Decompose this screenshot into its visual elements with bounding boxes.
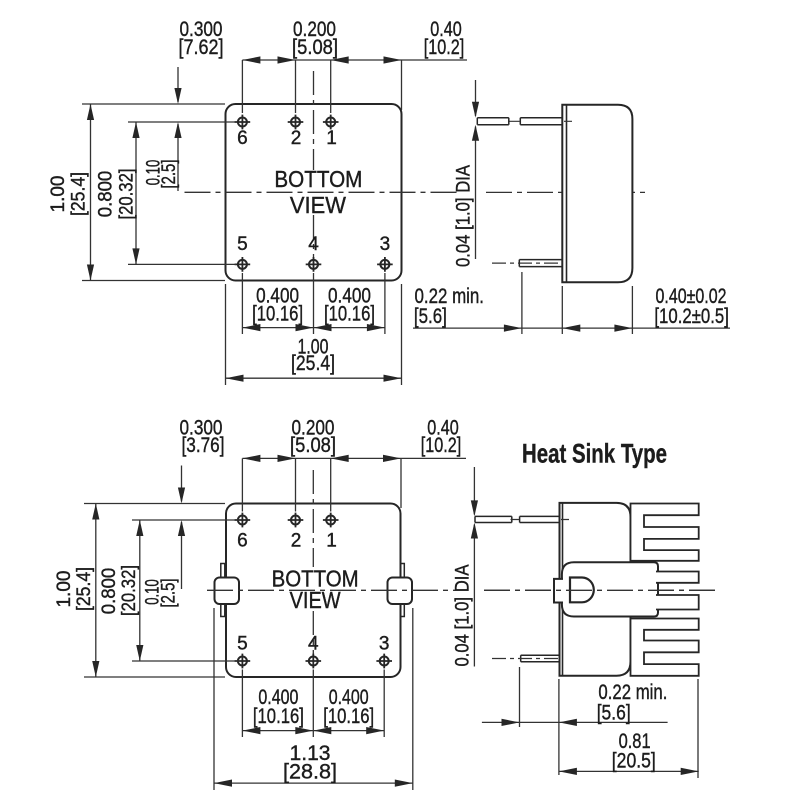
svg-text:[10.16]: [10.16]	[323, 705, 374, 728]
0.81 dim hs side view	[559, 679, 699, 778]
body outline bottom view standard	[226, 104, 402, 281]
top dimension lines 0.300 0.200 0.40	[242, 60, 467, 113]
bottom dims standard side view	[413, 272, 730, 334]
hs top pin break centerline	[511, 519, 570, 521]
pin 6 hs	[235, 513, 251, 528]
svg-text:0.800: 0.800	[95, 171, 116, 218]
body outline bottom view heat sink	[226, 504, 401, 678]
svg-text:[10.16]: [10.16]	[324, 303, 375, 326]
svg-text:[3.76]: [3.76]	[182, 434, 225, 457]
svg-text:[10.16]: [10.16]	[253, 705, 304, 728]
svg-text:[5.6]: [5.6]	[414, 305, 447, 328]
svg-text:5: 5	[237, 633, 248, 654]
svg-text:0.800: 0.800	[99, 568, 120, 615]
svg-text:[25.4]: [25.4]	[291, 352, 335, 375]
svg-text:VIEW: VIEW	[290, 192, 346, 218]
hs bottom pin	[521, 655, 560, 662]
pin 5 hs	[235, 654, 251, 669]
0.400 dims below body top drawing	[242, 273, 385, 334]
pin 4 hs	[306, 654, 322, 669]
0.10 dim top drawing	[177, 67, 179, 191]
svg-text:BOTTOM: BOTTOM	[274, 166, 362, 192]
clamp block	[562, 562, 658, 616]
pin 3 top	[377, 257, 393, 272]
svg-text:3: 3	[379, 633, 390, 654]
heat sink middle stub fin B	[656, 595, 699, 610]
1.00 height dim bottom drawing	[84, 504, 225, 678]
svg-text:[5.6]: [5.6]	[597, 702, 631, 725]
left mounting strip	[221, 564, 225, 617]
top dimension lines bottom drawing	[242, 458, 466, 511]
0.04 DIA dim standard side view	[475, 80, 477, 259]
svg-text:[5.08]: [5.08]	[290, 434, 336, 457]
svg-text:2: 2	[291, 530, 302, 551]
svg-text:[25.4]: [25.4]	[74, 567, 95, 611]
svg-text:[10.2]: [10.2]	[421, 434, 462, 457]
pin 1 top	[323, 115, 339, 130]
svg-text:1: 1	[326, 128, 337, 149]
pin 2 top	[288, 115, 304, 130]
clamp D-hole	[570, 578, 594, 603]
svg-text:1: 1	[326, 530, 337, 551]
svg-text:VIEW: VIEW	[290, 587, 341, 613]
pin 6 top	[235, 115, 251, 130]
pin 2 hs	[288, 513, 304, 528]
svg-text:[10.16]: [10.16]	[252, 303, 303, 326]
horizontal centerline top drawing	[185, 191, 650, 193]
svg-text:[20.32]: [20.32]	[116, 169, 137, 220]
side body inner face line	[566, 105, 568, 282]
heat sink middle stub fin A	[656, 572, 699, 583]
svg-text:[25.4]: [25.4]	[69, 172, 90, 216]
svg-text:4: 4	[308, 234, 319, 255]
heat sink top comb	[631, 504, 699, 561]
svg-text:[7.62]: [7.62]	[179, 36, 224, 59]
svg-text:[5.08]: [5.08]	[292, 36, 338, 59]
svg-text:Heat Sink Type: Heat Sink Type	[522, 439, 667, 469]
right flange tab	[388, 578, 413, 605]
0.10 dim bottom drawing	[181, 466, 183, 590]
svg-text:6: 6	[237, 128, 248, 149]
heat sink bottom comb	[631, 619, 699, 676]
bottom pin standard side view	[519, 260, 562, 267]
svg-text:4: 4	[308, 633, 319, 654]
arrows top dims	[242, 56, 401, 63]
svg-text:6: 6	[237, 530, 248, 551]
0.800 dim bottom drawing	[132, 520, 240, 661]
svg-text:5: 5	[237, 234, 248, 255]
svg-text:0.04 [1.0] DIA: 0.04 [1.0] DIA	[454, 165, 475, 267]
svg-text:[10.2±0.5]: [10.2±0.5]	[654, 305, 729, 328]
svg-text:[2.5]: [2.5]	[159, 579, 180, 608]
side body outline standard	[562, 105, 632, 282]
svg-text:1.00: 1.00	[48, 176, 69, 213]
svg-text:2: 2	[291, 128, 302, 149]
svg-text:3: 3	[380, 234, 391, 255]
bottom pin centerline std	[492, 262, 560, 264]
pin 1 hs	[323, 513, 339, 528]
top pin break centerline std	[510, 120, 573, 122]
hs top pin	[475, 516, 560, 522]
hs bottom pin centerline	[492, 658, 559, 660]
vertical centerline bottom bottom-view	[312, 470, 314, 666]
right mounting strip	[400, 564, 404, 617]
hs body inner face line	[562, 503, 564, 676]
1.00 width dim top drawing	[226, 284, 402, 385]
svg-text:[20.5]: [20.5]	[612, 750, 656, 773]
1.00 height dim top drawing	[82, 104, 225, 281]
svg-text:[28.8]: [28.8]	[283, 761, 337, 784]
clamp left nub	[554, 579, 563, 603]
horizontal centerline bottom drawing	[207, 589, 716, 591]
pin 4 top	[306, 257, 322, 272]
0.800 dim top drawing	[128, 122, 236, 264]
pin 3 hs	[376, 654, 392, 669]
pin 5 top	[235, 257, 251, 272]
left flange tab	[215, 578, 240, 605]
svg-text:[2.5]: [2.5]	[159, 160, 180, 189]
hs centerline over clamp	[484, 589, 716, 591]
hs body block	[560, 503, 631, 676]
1.13 width dim bottom drawing	[214, 608, 413, 790]
top pin standard side view	[477, 118, 562, 125]
svg-text:0.04 [1.0] DIA: 0.04 [1.0] DIA	[453, 564, 474, 666]
0.22 min dim hs side view	[482, 667, 668, 775]
svg-text:[20.32]: [20.32]	[119, 565, 140, 616]
vertical centerline top bottom-view	[313, 71, 315, 267]
0.400 dims below body bottom drawing	[242, 670, 384, 738]
svg-text:1.00: 1.00	[54, 571, 75, 608]
0.04 DIA dim hs side view	[473, 467, 475, 667]
svg-text:[10.2]: [10.2]	[424, 36, 465, 59]
